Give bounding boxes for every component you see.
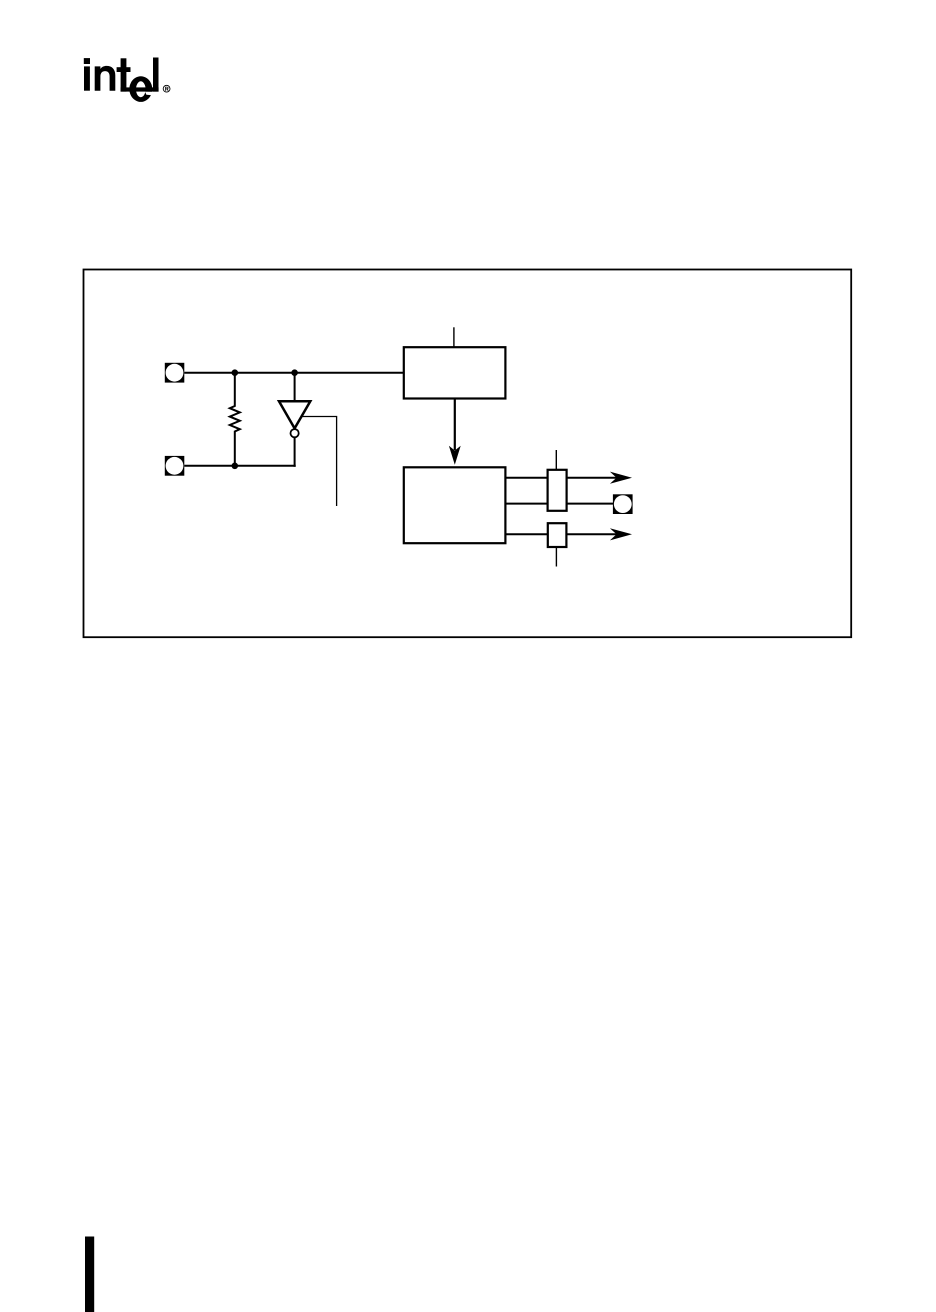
wire XTAL2 to inverter output: [184, 465, 295, 467]
junction dot top right: [291, 369, 298, 376]
wire output 1: [505, 477, 547, 479]
arrowhead output 3: [610, 528, 632, 540]
block B: [404, 467, 506, 543]
wire output 3: [505, 533, 547, 535]
registered trademark: [163, 85, 170, 92]
buffer 2 bottom stub: [555, 547, 557, 567]
block A: [404, 347, 506, 398]
wire output 2 to pad: [567, 503, 613, 505]
pad XTAL2: [165, 456, 185, 476]
block A top stub: [453, 327, 455, 347]
inverter input wire: [294, 373, 296, 402]
inverter U1: [279, 401, 310, 437]
junction dot top left: [232, 369, 239, 376]
buffer 1 top stub: [555, 450, 557, 470]
buffer block 2: [548, 523, 567, 547]
pad XTAL1: [165, 363, 185, 383]
inverter output wire: [294, 437, 296, 467]
arrowhead output 1: [610, 472, 632, 484]
resistor (feedback): [230, 373, 240, 466]
wire output 3 to arrow: [566, 533, 618, 535]
page margin bar: [85, 1237, 94, 1312]
pad CLKOUT: [613, 494, 633, 514]
wire output 1 to arrow: [567, 477, 618, 479]
wire output 2: [505, 503, 547, 505]
figure frame: [84, 270, 852, 638]
inverter enable wire: [302, 417, 337, 507]
wire XTAL1 to block A: [184, 372, 404, 374]
intel logo: [84, 58, 159, 102]
buffer block 1: [548, 470, 567, 511]
arrow block A to block B: [449, 399, 461, 465]
junction dot bottom: [232, 463, 239, 470]
